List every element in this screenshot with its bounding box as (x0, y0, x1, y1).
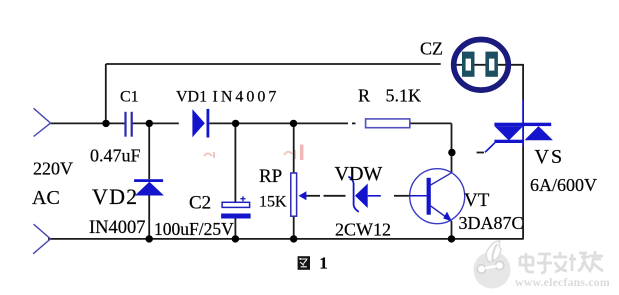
svg-text:220V: 220V (33, 158, 73, 178)
svg-text:6A/600V: 6A/600V (530, 175, 597, 195)
svg-text:VT: VT (464, 190, 490, 211)
svg-text:0.47uF: 0.47uF (90, 145, 141, 165)
svg-text:5.1K: 5.1K (386, 86, 422, 106)
svg-text:CZ: CZ (420, 38, 443, 58)
svg-text:VD2: VD2 (92, 184, 138, 209)
svg-text:15K: 15K (259, 194, 287, 211)
svg-text:RP: RP (259, 166, 282, 187)
svg-text:100uF/25V: 100uF/25V (154, 219, 234, 239)
svg-text:C1: C1 (120, 89, 139, 106)
svg-text:1: 1 (319, 254, 328, 273)
svg-text:IN4007: IN4007 (213, 89, 280, 106)
svg-text:AC: AC (32, 187, 60, 209)
svg-text:R: R (358, 86, 370, 106)
svg-text:C2: C2 (189, 193, 211, 214)
svg-text:2CW12: 2CW12 (335, 220, 391, 240)
svg-text:VD1: VD1 (176, 89, 207, 106)
svg-text:VS: VS (535, 146, 565, 168)
svg-text:VDW: VDW (335, 163, 383, 185)
svg-text:IN4007: IN4007 (89, 218, 146, 238)
svg-text:www.elecfans.com: www.elecfans.com (515, 275, 610, 289)
svg-text:3DA87C: 3DA87C (459, 213, 524, 233)
